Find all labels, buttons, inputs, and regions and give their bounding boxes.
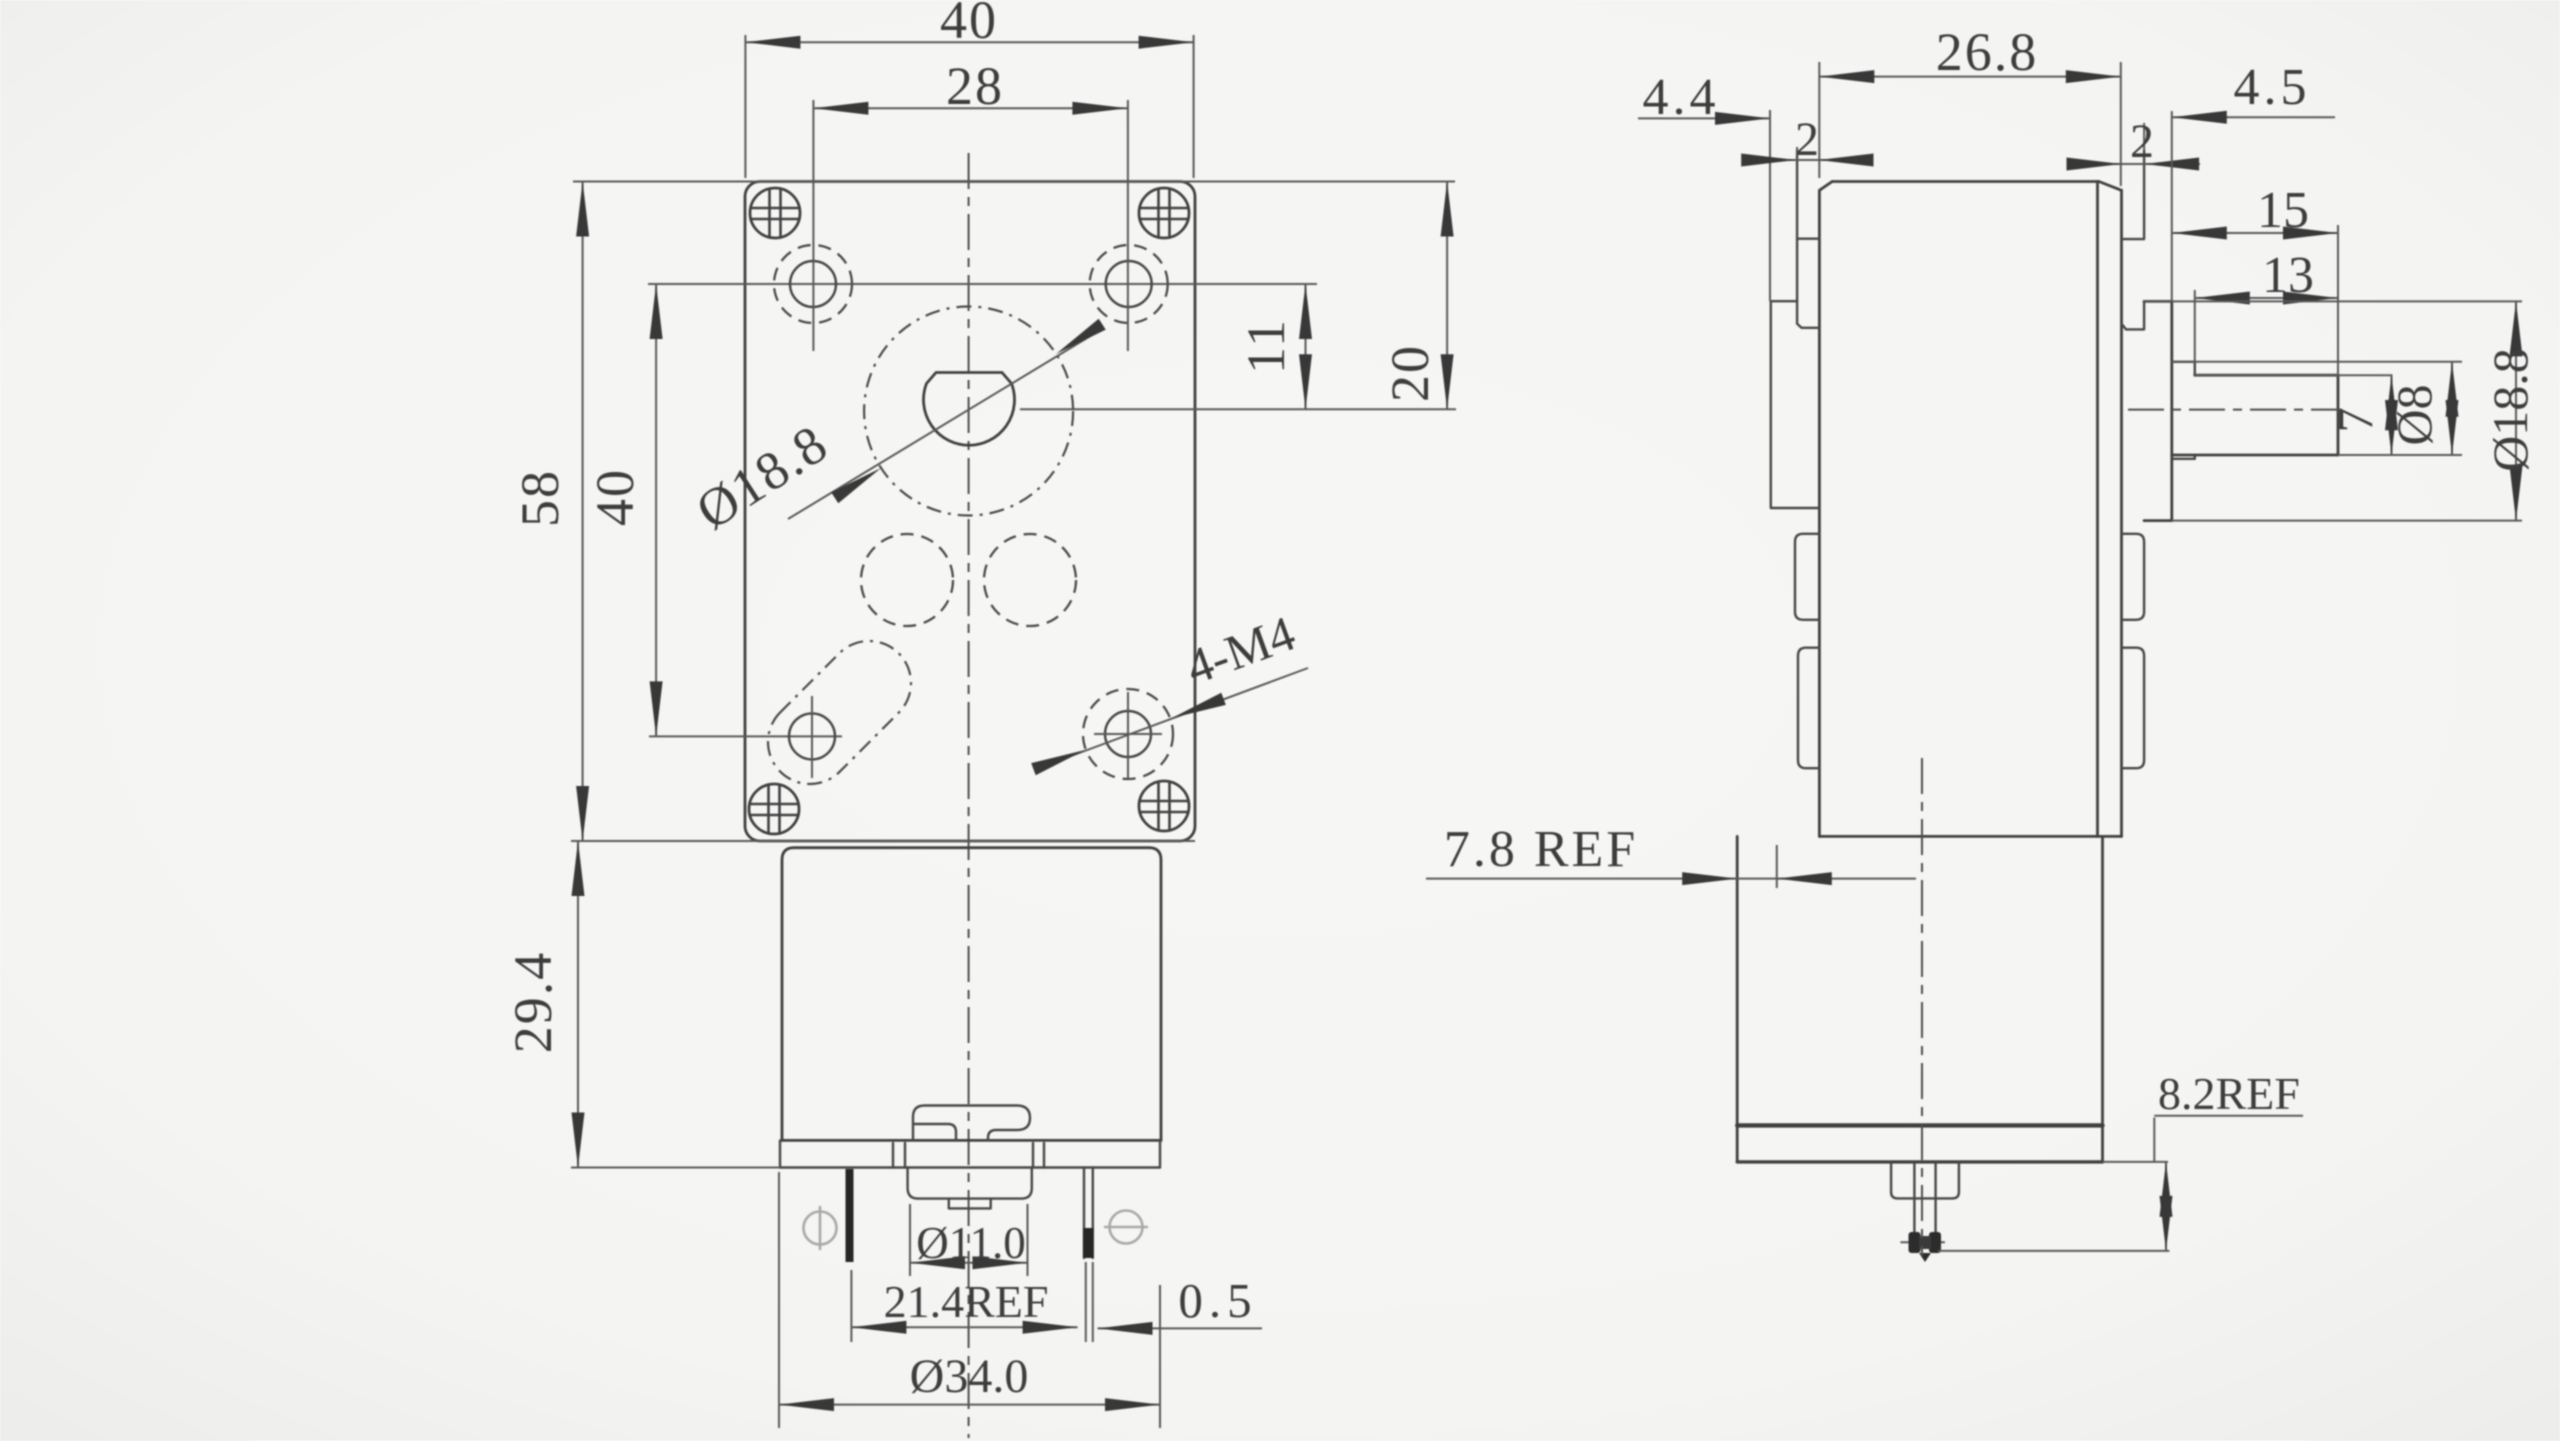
svg-text:11: 11	[1236, 318, 1296, 374]
side body outline	[1819, 182, 2121, 837]
svg-text:7.8 REF: 7.8 REF	[1444, 821, 1638, 878]
svg-text:40: 40	[940, 0, 998, 50]
svg-text:29.4: 29.4	[503, 951, 563, 1054]
svg-text:8.2REF: 8.2REF	[2158, 1068, 2300, 1119]
dim 4.4	[1638, 69, 1770, 301]
dim 8.2REF	[1938, 1068, 2303, 1251]
dim 2 left	[1741, 113, 1873, 167]
dim Ø34.0	[779, 1172, 1160, 1428]
side motor outline	[1737, 836, 2102, 1162]
shaft centerline	[2128, 409, 2342, 411]
terminal minus (right)	[1083, 1168, 1094, 1259]
side tab right upper	[2122, 534, 2145, 620]
mounting plate edge (left)	[1797, 150, 1819, 328]
svg-text:2: 2	[2130, 115, 2154, 168]
plus symbol	[804, 1206, 837, 1250]
dim 13	[2195, 247, 2338, 362]
extension line: flange bottom (29.4 dim)	[571, 1167, 780, 1169]
terminal plus (left)	[846, 1169, 854, 1262]
gearbox front outline	[745, 182, 1195, 842]
svg-text:26.8: 26.8	[1936, 22, 2039, 82]
svg-text:28: 28	[946, 56, 1004, 116]
motor bottom edge	[782, 1139, 1161, 1142]
extension line: lower hole axis (40 dim)	[649, 735, 842, 737]
dim 0.5	[1098, 1273, 1263, 1335]
svg-text:Ø11.0: Ø11.0	[916, 1218, 1026, 1268]
svg-text:4.5: 4.5	[2234, 59, 2311, 116]
leader 4-M4	[1031, 605, 1308, 776]
motor front outline	[782, 848, 1161, 1141]
worm tip	[1909, 1232, 1942, 1262]
svg-text:58: 58	[510, 469, 570, 527]
dim 28	[813, 56, 1127, 116]
dim 58	[510, 182, 589, 842]
side motor shaft	[1900, 1163, 1945, 1245]
dim 40 top	[745, 0, 1193, 178]
side motor end cap	[1891, 1162, 1959, 1199]
leader Ø18.8	[686, 319, 1106, 541]
motor end cap	[908, 1168, 1032, 1199]
corner screw TR	[1139, 188, 1189, 238]
M4 hole bottom-right	[1083, 689, 1173, 779]
cover tab right upper (2mm)	[2122, 150, 2145, 329]
dim Ø11.0	[910, 1204, 1028, 1276]
output shaft with flat	[2172, 375, 2338, 455]
dim 11	[1236, 284, 1312, 409]
dim 7	[2195, 375, 2398, 455]
M4 hole top-left	[774, 100, 852, 351]
svg-text:2: 2	[1795, 113, 1819, 166]
output shaft boss circle Ø18.8 (phantom)	[864, 307, 1073, 516]
dim 26.8	[1819, 22, 2121, 186]
corner screw BL	[749, 784, 799, 834]
spring clip (S-clip)	[913, 1106, 1030, 1141]
side tab left upper	[1795, 534, 1819, 620]
M4 hole top-right	[1090, 100, 1168, 351]
extension line: upper hole axis (40 / 11 dims)	[648, 283, 1317, 285]
svg-text:Ø8: Ø8	[2386, 384, 2442, 445]
minus symbol	[1104, 1211, 1148, 1244]
svg-text:15: 15	[2257, 182, 2309, 239]
corner screw TL	[750, 188, 800, 238]
worm housing bump (left)	[1771, 301, 1820, 508]
dim 21.4REF	[851, 1262, 1092, 1342]
centerline: front view vertical axis	[968, 153, 970, 1438]
svg-text:Ø34.0: Ø34.0	[910, 1350, 1029, 1403]
flange band	[780, 1140, 1160, 1167]
dim 29.4	[503, 841, 585, 1168]
M4 hole bottom-left	[789, 696, 835, 778]
dim 4.5	[2172, 59, 2335, 301]
svg-text:13: 13	[2262, 247, 2314, 304]
extension line: shaft axis horizontal (11 / 20 dims)	[1020, 408, 1456, 410]
svg-text:4.4: 4.4	[1643, 69, 1720, 126]
dim 20	[1380, 182, 1454, 410]
dim 40 vertical	[585, 284, 663, 736]
svg-text:7: 7	[2327, 408, 2383, 433]
side tab right lower	[2122, 648, 2145, 769]
extension line: top edge (58 / 20 dims)	[573, 181, 1455, 183]
dim 15	[2172, 182, 2338, 375]
idler gear hole left (hidden)	[861, 534, 953, 626]
side tab left lower	[1798, 648, 1819, 769]
dim Ø18.8 side	[2144, 301, 2538, 520]
svg-text:40: 40	[585, 468, 645, 526]
svg-text:20: 20	[1380, 344, 1440, 402]
output shaft boss	[2144, 301, 2172, 520]
slot obround (phantom)	[768, 641, 911, 784]
shaft bearing hub	[2172, 362, 2195, 459]
dim 2 right	[2067, 115, 2201, 171]
svg-text:0.5: 0.5	[1178, 1273, 1257, 1328]
svg-text:Ø18.8: Ø18.8	[2482, 348, 2538, 472]
output shaft D-hole	[924, 373, 1015, 446]
dim Ø8	[2172, 362, 2462, 455]
extension line: bottom edge (58 / 29.4 dims)	[571, 840, 1195, 842]
corner screw BR	[1139, 781, 1189, 831]
idler gear hole right (hidden)	[984, 534, 1076, 626]
dim 7.8 REF	[1426, 821, 1916, 888]
svg-text:21.4REF: 21.4REF	[884, 1276, 1049, 1327]
side centerline	[1921, 758, 1923, 1256]
bearing boss	[949, 1199, 991, 1209]
